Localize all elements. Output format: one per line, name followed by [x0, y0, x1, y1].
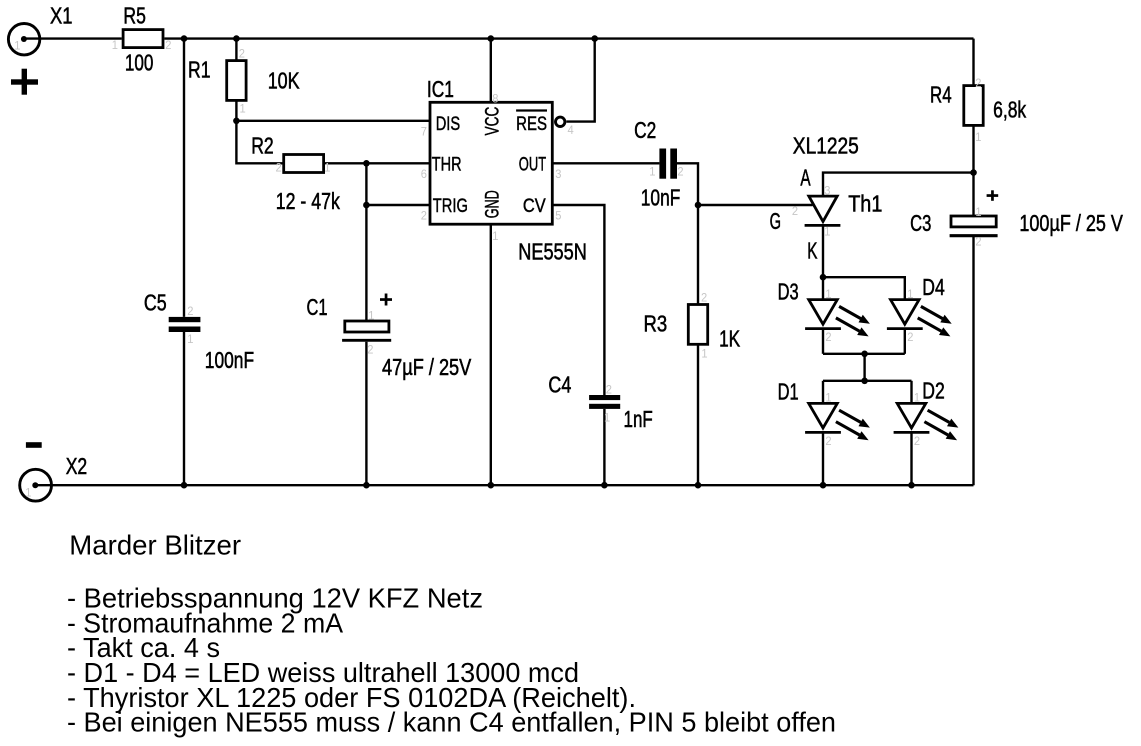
svg-text:10K: 10K [268, 68, 300, 94]
svg-text:C1: C1 [307, 294, 328, 320]
wire DIS node down to R2 [236, 121, 283, 164]
svg-text:D2: D2 [922, 378, 945, 404]
svg-text:1: 1 [604, 411, 610, 425]
svg-text:7: 7 [421, 124, 427, 138]
svg-text:XL1225: XL1225 [793, 132, 859, 158]
svg-text:R3: R3 [644, 310, 668, 336]
LED D1 [805, 403, 870, 440]
svg-text:2: 2 [367, 343, 373, 357]
svg-text:1: 1 [492, 229, 498, 243]
svg-text:1: 1 [240, 101, 246, 115]
svg-text:2: 2 [792, 204, 798, 218]
wire C5 to ground rail [183, 332, 185, 485]
wire R3 to ground rail [697, 344, 699, 485]
junction node K [820, 274, 827, 281]
svg-text:RES: RES [516, 114, 547, 135]
svg-text:TRIG: TRIG [433, 196, 468, 217]
wire gate node to Th1 gate [698, 204, 813, 206]
svg-text:1: 1 [824, 225, 830, 239]
svg-text:1: 1 [825, 287, 831, 301]
wire R4 to anode node [972, 125, 974, 172]
wire K node to D4 [823, 277, 905, 299]
plus polarity symbol [11, 69, 38, 95]
svg-text:R2: R2 [251, 133, 274, 159]
plus sign of C3 [987, 190, 999, 201]
resistor R4 [964, 86, 983, 126]
resistor R5 [123, 30, 163, 48]
svg-text:C5: C5 [144, 289, 167, 315]
svg-text:2: 2 [975, 235, 981, 249]
RES inversion bubble [556, 117, 565, 126]
junction node R3 ground [695, 482, 702, 489]
svg-text:2: 2 [187, 304, 193, 318]
junction node anode [970, 169, 977, 176]
wire anode node to Th1 anode [823, 173, 974, 197]
wire top rail to R4 [972, 39, 974, 86]
wire X1 to R5 [24, 37, 122, 39]
wire node to C5 [183, 39, 185, 317]
wire GND to ground rail [490, 224, 492, 485]
svg-text:GND: GND [483, 190, 504, 218]
connector X2 [20, 469, 52, 501]
svg-text:R5: R5 [123, 2, 145, 28]
svg-text:2: 2 [825, 330, 831, 344]
junction node VCC [488, 35, 495, 42]
resistor R3 [688, 305, 707, 345]
svg-text:1: 1 [907, 287, 913, 301]
svg-text:1: 1 [368, 309, 374, 323]
svg-text:100nF: 100nF [205, 347, 254, 373]
junction node gate [695, 202, 702, 209]
svg-text:1: 1 [701, 347, 707, 361]
svg-text:10nF: 10nF [641, 185, 681, 211]
wire C2 to gate node [677, 163, 698, 205]
svg-text:2: 2 [907, 330, 913, 344]
svg-text:IC1: IC1 [427, 76, 454, 102]
svg-text:6: 6 [421, 167, 428, 181]
junction node D2 ground [908, 482, 915, 489]
svg-text:2: 2 [165, 38, 171, 52]
plus sign of C1 [380, 294, 392, 306]
svg-text:1K: 1K [719, 325, 741, 351]
ground rail [35, 484, 973, 486]
svg-text:2: 2 [677, 164, 683, 178]
svg-text:5: 5 [555, 209, 562, 223]
svg-text:12 - 47k: 12 - 47k [276, 188, 340, 214]
wire node to R1 [235, 39, 237, 61]
svg-text:D3: D3 [778, 279, 799, 305]
wire RES bubble to top rail [566, 39, 594, 122]
wire TRIG node to C1 [365, 205, 367, 321]
capacitor C5 [169, 317, 201, 332]
svg-text:- Bei einigen NE555 muss / kan: - Bei einigen NE555 muss / kann C4 entfa… [67, 707, 836, 738]
svg-text:C2: C2 [634, 117, 656, 143]
LED D3 [805, 300, 870, 337]
svg-text:NE555N: NE555N [518, 238, 587, 264]
junction node R1 top [233, 35, 240, 42]
wire anode rail to D2 [910, 381, 912, 404]
junction node anode rail [861, 378, 868, 385]
svg-text:DIS: DIS [436, 114, 461, 135]
svg-text:2: 2 [421, 209, 427, 223]
svg-text:Th1: Th1 [848, 191, 882, 217]
svg-text:47µF / 25V: 47µF / 25V [382, 354, 472, 380]
junction node RES [591, 35, 598, 42]
svg-text:D1: D1 [778, 379, 799, 405]
svg-text:C4: C4 [548, 371, 571, 397]
svg-text:1: 1 [975, 205, 981, 219]
resistor R2 [284, 155, 324, 173]
junction node GND ground [488, 482, 495, 489]
wire C1 to ground rail [365, 342, 367, 486]
svg-text:2: 2 [239, 47, 245, 61]
wire D3-D4 cathode rail [823, 353, 905, 355]
svg-text:1: 1 [649, 164, 655, 178]
minus polarity symbol [26, 442, 42, 448]
capacitor C3 electrolytic [950, 216, 998, 236]
wire K node to D3 [822, 277, 824, 299]
svg-text:6,8k: 6,8k [993, 97, 1026, 123]
junction node C5 ground [181, 482, 188, 489]
svg-text:A: A [800, 165, 811, 191]
svg-text:2: 2 [825, 434, 831, 448]
LED D2 [894, 403, 959, 440]
capacitor C2 [659, 149, 677, 179]
svg-text:1nF: 1nF [624, 406, 653, 432]
junction node THR [363, 160, 370, 167]
wire D2 to ground rail [910, 432, 912, 485]
svg-text:4: 4 [568, 123, 575, 137]
junction node DIS [233, 118, 240, 125]
svg-text:X1: X1 [50, 3, 73, 29]
svg-text:1: 1 [25, 486, 31, 500]
wire THR node down [365, 163, 367, 205]
svg-text:CV: CV [523, 196, 546, 217]
junction node TRIG [363, 202, 370, 209]
svg-text:1: 1 [825, 391, 831, 405]
svg-text:8: 8 [492, 92, 499, 106]
svg-text:OUT: OUT [519, 154, 546, 175]
wire OUT to C2 [553, 162, 660, 164]
svg-text:C3: C3 [910, 210, 931, 236]
svg-text:R1: R1 [188, 57, 211, 83]
wire C4 to ground rail [603, 409, 605, 485]
svg-text:THR: THR [432, 154, 462, 175]
svg-text:D4: D4 [922, 274, 945, 300]
wire anode node to C3 [972, 173, 974, 216]
svg-text:G: G [770, 208, 781, 234]
svg-text:2: 2 [701, 291, 707, 305]
wire D1 to ground rail [822, 432, 824, 485]
wire D3 cathode down [822, 329, 824, 354]
svg-text:K: K [807, 237, 818, 263]
capacitor C4 [589, 395, 620, 409]
wire anode rail to D1 [822, 381, 824, 404]
svg-text:100: 100 [125, 49, 153, 75]
svg-text:Marder Blitzer: Marder Blitzer [69, 530, 241, 561]
wire C3 to ground rail [972, 236, 974, 486]
svg-text:2: 2 [276, 161, 282, 175]
svg-text:1: 1 [14, 39, 20, 53]
svg-text:2: 2 [975, 76, 981, 90]
svg-text:X2: X2 [66, 453, 88, 479]
wire CV to C4 [553, 205, 605, 395]
wire TRIG node to IC1 TRIG pin [366, 204, 430, 206]
wire R2 to IC1 THR pin [324, 162, 430, 164]
resistor R1 [227, 61, 246, 101]
wire cathode rail to anode rail [863, 354, 865, 381]
junction node C4 ground [601, 482, 608, 489]
svg-text:2: 2 [606, 383, 612, 397]
junction node cathode rail [861, 351, 868, 358]
junction node C1 ground [363, 482, 370, 489]
junction node D1 ground [820, 482, 827, 489]
svg-text:VCC: VCC [483, 107, 504, 136]
wire D4 cathode down [904, 329, 906, 354]
RES pin overline [516, 109, 547, 111]
LED D4 [887, 300, 952, 337]
svg-text:1: 1 [914, 391, 920, 405]
junction node after R5 [181, 35, 188, 42]
svg-text:1: 1 [187, 332, 193, 346]
svg-text:1: 1 [324, 161, 330, 175]
svg-text:3: 3 [555, 167, 562, 181]
svg-text:1: 1 [112, 38, 118, 52]
IC1 NE555 body [430, 102, 552, 224]
svg-text:R4: R4 [930, 81, 952, 107]
wire gate node to R3 [697, 205, 699, 305]
wire Th1 cathode to K node [822, 225, 824, 277]
thyristor Th1 [805, 196, 841, 225]
wire D1-D2 anode rail [823, 380, 912, 382]
connector X1 [8, 24, 39, 55]
svg-text:1: 1 [975, 130, 981, 144]
capacitor C1 electrolytic [342, 321, 391, 340]
svg-text:3: 3 [824, 184, 831, 198]
wire VCC to top rail [490, 39, 492, 103]
wire top rail [164, 37, 973, 39]
svg-text:2: 2 [914, 434, 920, 448]
svg-text:100µF / 25 V: 100µF / 25 V [1019, 210, 1123, 236]
wire DIS node to IC1 DIS pin [236, 120, 430, 122]
wire R1 to DIS node [235, 100, 237, 120]
